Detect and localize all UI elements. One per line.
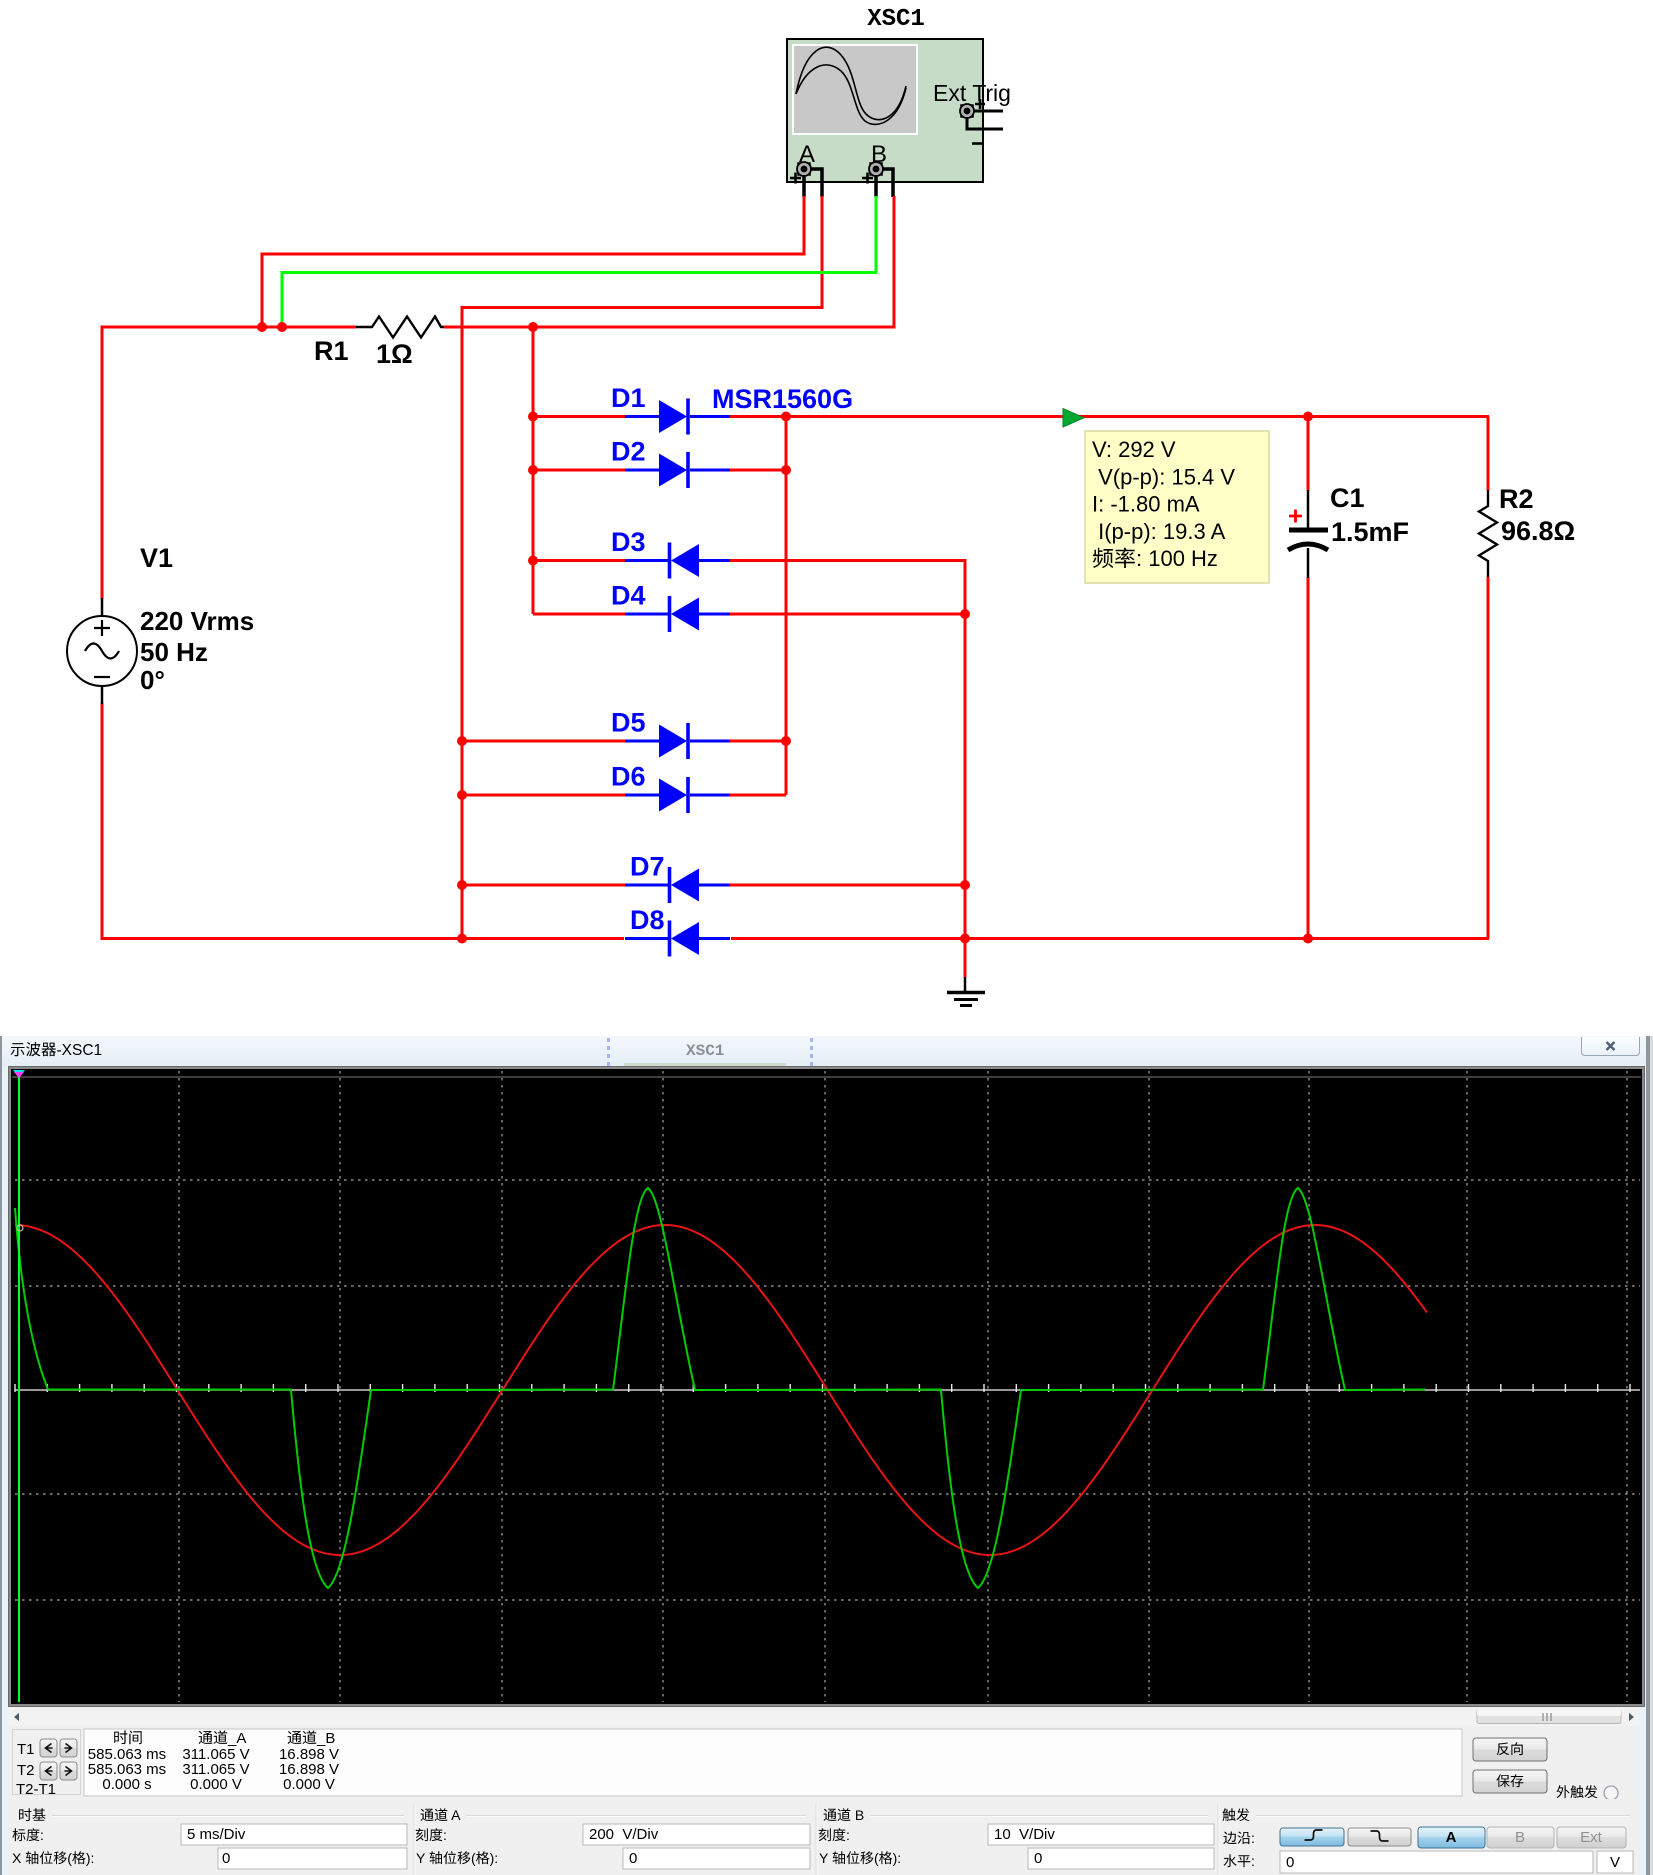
scope window title bar [2,1036,1646,1067]
svg-text:(: ( [67,1850,72,1866]
junction (262,327) [257,322,267,332]
wire scope B+ (green) to bus node [282,196,876,327]
svg-text:D8: D8 [630,905,665,935]
diode D3 [625,543,730,579]
svg-text:A: A [799,141,815,168]
svg-text:96.8Ω: 96.8Ω [1501,516,1575,546]
svg-text:(: ( [471,1850,476,1866]
junction (1308,938.5) [1303,934,1313,944]
svg-text:D6: D6 [611,762,646,792]
wire D7 row right [730,884,965,887]
svg-text:B: B [1515,1829,1525,1846]
svg-text:):: ): [86,1850,95,1866]
svg-text:V1: V1 [140,543,173,573]
svg-text:Y: Y [416,1850,429,1866]
svg-text::: : [1251,1853,1255,1869]
wire D2 anode [533,469,625,472]
probe arrow (green) [1063,409,1084,428]
junction (533,327) [528,322,538,332]
wire vertical rail x=786 [785,417,788,796]
wire scope A+ to bus node [262,196,804,327]
terminal A of scope [790,141,822,197]
wire D5 row right [730,740,786,743]
wire D4 row right [730,613,965,616]
junction (786,416.5) [781,412,791,422]
resistor R2 [1479,490,1497,577]
svg-text::: : [1251,1830,1255,1846]
Ext Trig terminal [960,99,1003,144]
wire D3 anode to rail x=965 [730,559,965,977]
voltage source V1 [67,598,137,704]
svg-text:Ext: Ext [1580,1829,1603,1846]
diode D7 [625,867,730,903]
svg-text:A: A [1446,1829,1457,1846]
svg-text:D2: D2 [611,437,646,467]
wire ground stub [964,939,967,978]
svg-text:0°: 0° [140,665,165,695]
svg-text:I(p-p): 19.3 A: I(p-p): 19.3 A [1092,519,1226,544]
scope plot area [8,1066,1645,1707]
svg-text:50 Hz: 50 Hz [140,637,208,667]
svg-text:):: ): [490,1850,499,1866]
scrollbar [8,1708,1640,1726]
svg-text:(: ( [874,1850,879,1866]
wire D6 row right [730,794,786,797]
svg-text:0.000 V: 0.000 V [190,1776,242,1793]
junction (786,741) [781,736,791,746]
svg-text:Y: Y [819,1850,832,1866]
close button [1581,1037,1640,1056]
diode D4 [625,596,730,632]
svg-text:D4: D4 [611,581,646,611]
svg-text:0.000 s: 0.000 s [102,1776,151,1793]
button fanxiang [1473,1738,1547,1761]
wire D1 anode [533,415,625,418]
wire scope A- to diode rail [462,196,822,939]
wire V1 bottom lead [102,703,624,939]
wire D5 row left [462,740,625,743]
svg-text:_B: _B [316,1730,335,1747]
wire D7 row left [462,884,625,887]
junction (965,614) [960,609,970,619]
svg-text:0.000 V: 0.000 V [283,1776,335,1793]
button baocun [1473,1770,1547,1793]
svg-text:MSR1560G: MSR1560G [712,384,853,414]
wire V1 top lead [101,327,104,599]
oscilloscope XSC1 instrument icon [787,39,983,182]
diode D1 [625,399,730,435]
diode D2 [625,452,730,488]
wire bus R1 to B- corner [444,326,894,329]
terminal B of scope [862,141,893,197]
svg-text:Ext Trig: Ext Trig [933,80,1011,106]
resistor R1 [356,317,444,338]
junction (462,795) [457,790,467,800]
capacitor C1 [1288,490,1328,578]
svg-text:XSC1: XSC1 [686,1042,724,1060]
svg-text::: : [443,1827,447,1843]
svg-text:D3: D3 [611,527,646,557]
svg-text:V: V [1610,1854,1620,1871]
wire D2 cathode [730,469,786,472]
svg-text:: 100 Hz: : 100 Hz [1136,546,1218,571]
svg-text:0: 0 [1286,1854,1294,1871]
diode D8 [625,921,730,957]
svg-text:C1: C1 [1330,483,1365,513]
svg-text:B: B [871,141,887,168]
wire C1 top lead [1307,417,1310,492]
svg-text:0: 0 [222,1850,230,1867]
junction (462,885) [457,880,467,890]
junction (965,885) [960,880,970,890]
svg-text:V: 292 V: V: 292 V [1092,437,1176,462]
svg-text:I: -1.80 mA: I: -1.80 mA [1092,492,1200,517]
svg-text:220 Vrms: 220 Vrms [140,606,254,636]
wire C1 bottom lead [1307,577,1310,939]
svg-text:V(p-p): 15.4 V: V(p-p): 15.4 V [1092,464,1235,489]
svg-text:200 V/Div: 200 V/Div [589,1826,659,1843]
wire D3 cathode-side [533,559,625,562]
svg-text:10 V/Div: 10 V/Div [994,1826,1055,1843]
svg-text:1Ω: 1Ω [376,339,413,369]
junction (1308,416.5) [1303,412,1313,422]
junction (533,416.5) [528,412,538,422]
junction (462,938.5) [457,934,467,944]
svg-text:0: 0 [1034,1850,1042,1867]
wire vertical rail x=533 [532,327,535,614]
junction (462,741) [457,736,467,746]
diode D6 [625,777,730,813]
wire D4 row left [533,613,625,616]
wire scope B- to bus end [893,196,896,329]
svg-text:_A: _A [227,1730,246,1747]
svg-text:D1: D1 [611,383,646,413]
wire D6 row left [462,794,625,797]
svg-text:):: ): [893,1850,902,1866]
svg-text:T2-T1: T2-T1 [16,1781,56,1798]
svg-text:X: X [12,1850,25,1866]
svg-text:R2: R2 [1499,484,1534,514]
svg-text:-XSC1: -XSC1 [57,1042,103,1059]
svg-text::: : [40,1827,44,1843]
svg-text:R1: R1 [314,336,349,366]
svg-text:D5: D5 [611,708,646,738]
junction (282,327) [277,322,287,332]
svg-text:5 ms/Div: 5 ms/Div [187,1826,246,1843]
diode D5 [625,723,730,759]
junction (965,938.5) [960,934,970,944]
cursor readout panel [12,1729,81,1795]
junction (533,560.5) [528,556,538,566]
svg-text:A: A [448,1807,461,1823]
wire bottom bus right of D8 to R2 [731,937,1489,940]
svg-text:0: 0 [629,1850,637,1867]
svg-text::: : [846,1827,850,1843]
junction (533,470) [528,465,538,475]
junction (786,470) [781,465,791,475]
svg-text:T1: T1 [17,1741,35,1758]
svg-text:XSC1: XSC1 [867,6,925,33]
probe readout box [1085,431,1269,583]
ground [947,977,985,1006]
svg-text:T2: T2 [17,1762,35,1779]
wire main bus from V1 to R1 [102,327,356,328]
svg-text:D7: D7 [630,852,665,882]
wire D1 cathode to output node [730,417,1489,491]
svg-text:1.5mF: 1.5mF [1331,517,1409,547]
wire R2 bottom lead [1487,577,1490,939]
svg-text:B: B [851,1807,864,1823]
